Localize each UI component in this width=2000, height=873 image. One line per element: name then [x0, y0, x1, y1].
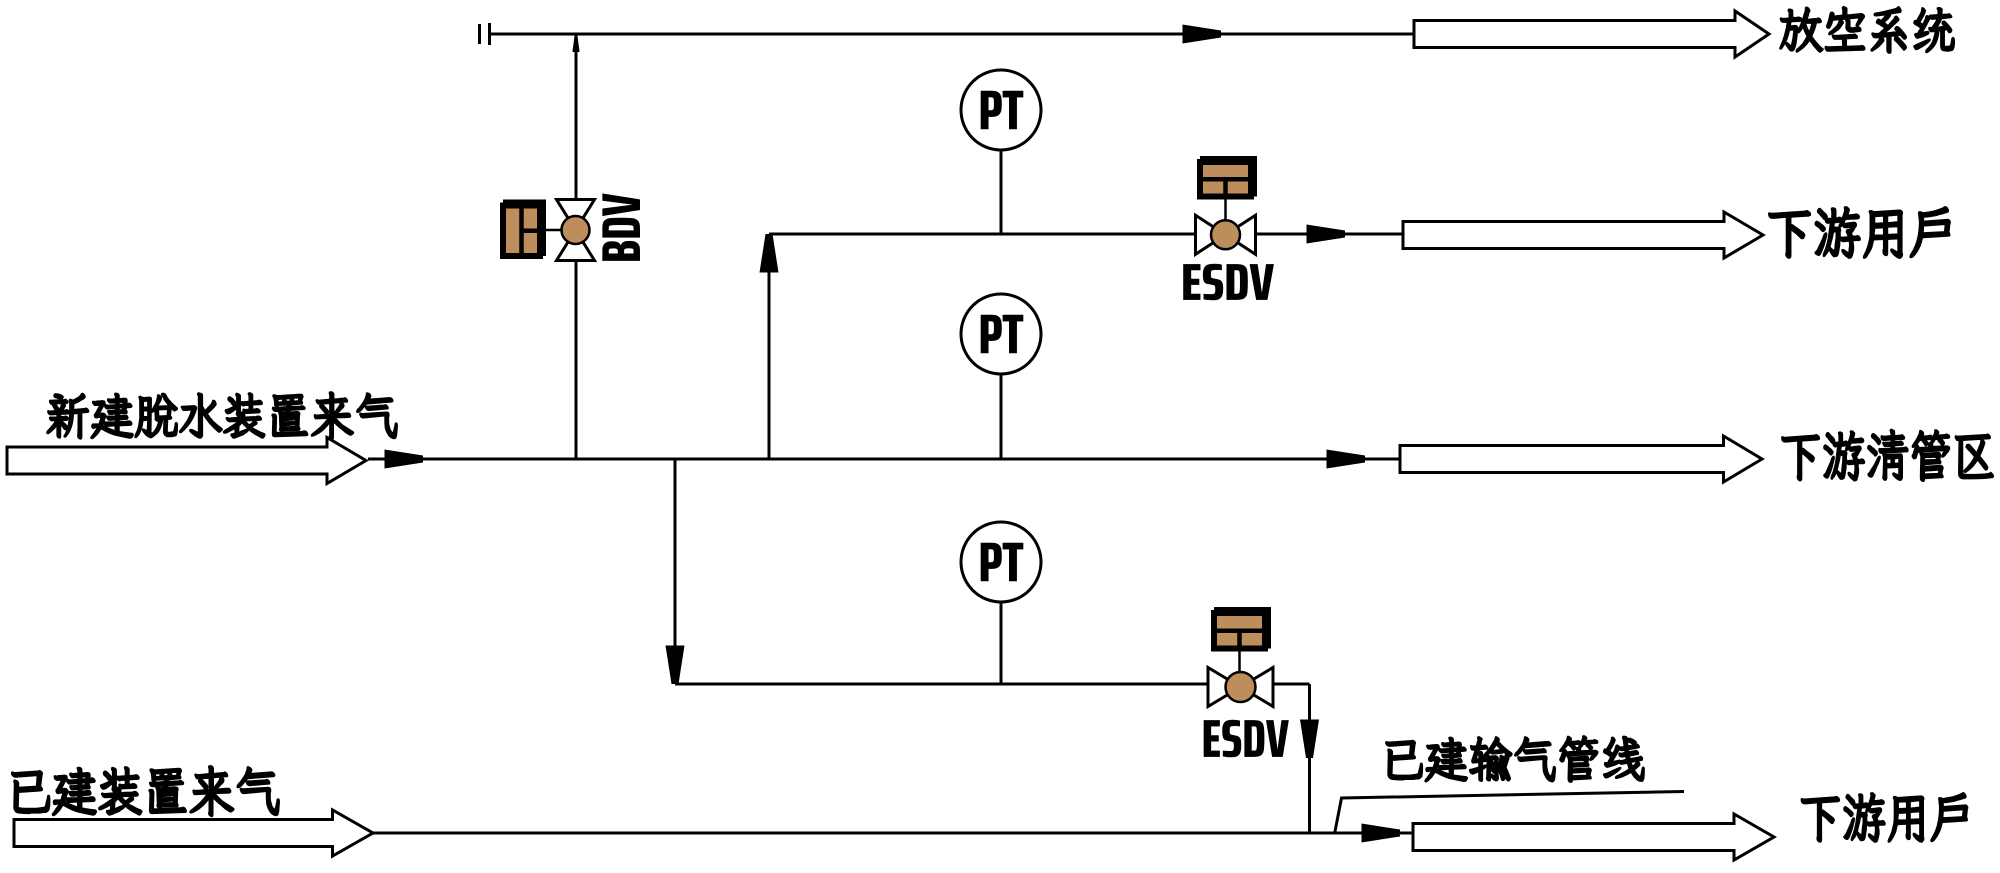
- label 下游用户 lower: [1801, 793, 1967, 842]
- valve BDV: [557, 200, 595, 261]
- leader line for existing pipeline label: [1335, 792, 1684, 834]
- flow arrow up into vent header: [572, 34, 579, 52]
- valve ESDV1: [1196, 215, 1256, 254]
- label 下游用户 upper: [1769, 207, 1950, 258]
- wire PT3 stem: [1000, 602, 1003, 684]
- flow arrow up at branch corner: [760, 234, 779, 273]
- valve ESDV2: [1208, 668, 1273, 707]
- flow arrow before pigging outlet: [1327, 450, 1366, 469]
- wire PT2 stem: [1000, 374, 1003, 459]
- block arrow outlet to flare: [1414, 11, 1769, 57]
- wire actuator-to-valve BDV: [543, 229, 562, 232]
- label 新建脱水装置来气: [47, 392, 397, 439]
- label ESDV upper: [1184, 264, 1274, 300]
- wire lower branch line y=684: [675, 683, 1310, 686]
- label 已建装置来气: [12, 766, 279, 816]
- actuator of BDV: [503, 200, 546, 257]
- block arrow outlet to pigging area: [1400, 436, 1762, 482]
- block arrow inlet from existing unit: [14, 810, 373, 856]
- label 下游清管区: [1782, 430, 1993, 481]
- wire drop x=675: [674, 459, 677, 684]
- flow arrow on upper branch: [1307, 225, 1346, 244]
- wire drop to existing line x=1309.5: [1308, 684, 1311, 833]
- actuator of ESDV1: [1200, 156, 1257, 197]
- instrument PT1: [961, 70, 1041, 150]
- label 放空系统: [1780, 7, 1954, 53]
- label 已建输气管线: [1386, 736, 1644, 782]
- flow arrow after inlet: [385, 450, 424, 469]
- wire actuator-to-valve ESDV2: [1238, 652, 1241, 673]
- instrument PT3: [961, 522, 1041, 602]
- wire upper branch line y=234: [769, 233, 1403, 236]
- label BDV: [603, 194, 640, 261]
- wire main line y=459: [368, 458, 1400, 461]
- flow arrow down at drop: [666, 646, 685, 685]
- instrument PT2: [961, 294, 1041, 374]
- wire BDV riser x=576: [575, 34, 578, 459]
- wire vent header line y=34: [491, 33, 1414, 36]
- block arrow inlet from new dehydration unit: [7, 438, 366, 484]
- flow arrow down on drop: [1300, 720, 1319, 759]
- wire riser up x=769: [768, 234, 771, 459]
- wire actuator-to-valve ESDV1: [1224, 200, 1227, 221]
- flow arrow on bottom line: [1362, 824, 1401, 843]
- block arrow outlet to downstream users lower: [1413, 814, 1774, 860]
- pipe cap ticks at vent header start: [480, 23, 490, 45]
- block arrow outlet to downstream users upper: [1403, 212, 1763, 258]
- wire bottom line y=833: [373, 832, 1412, 835]
- flow arrow on vent header: [1183, 25, 1222, 44]
- wire PT1 stem: [1000, 150, 1003, 234]
- label ESDV lower: [1204, 720, 1289, 757]
- actuator of ESDV2: [1214, 607, 1271, 649]
